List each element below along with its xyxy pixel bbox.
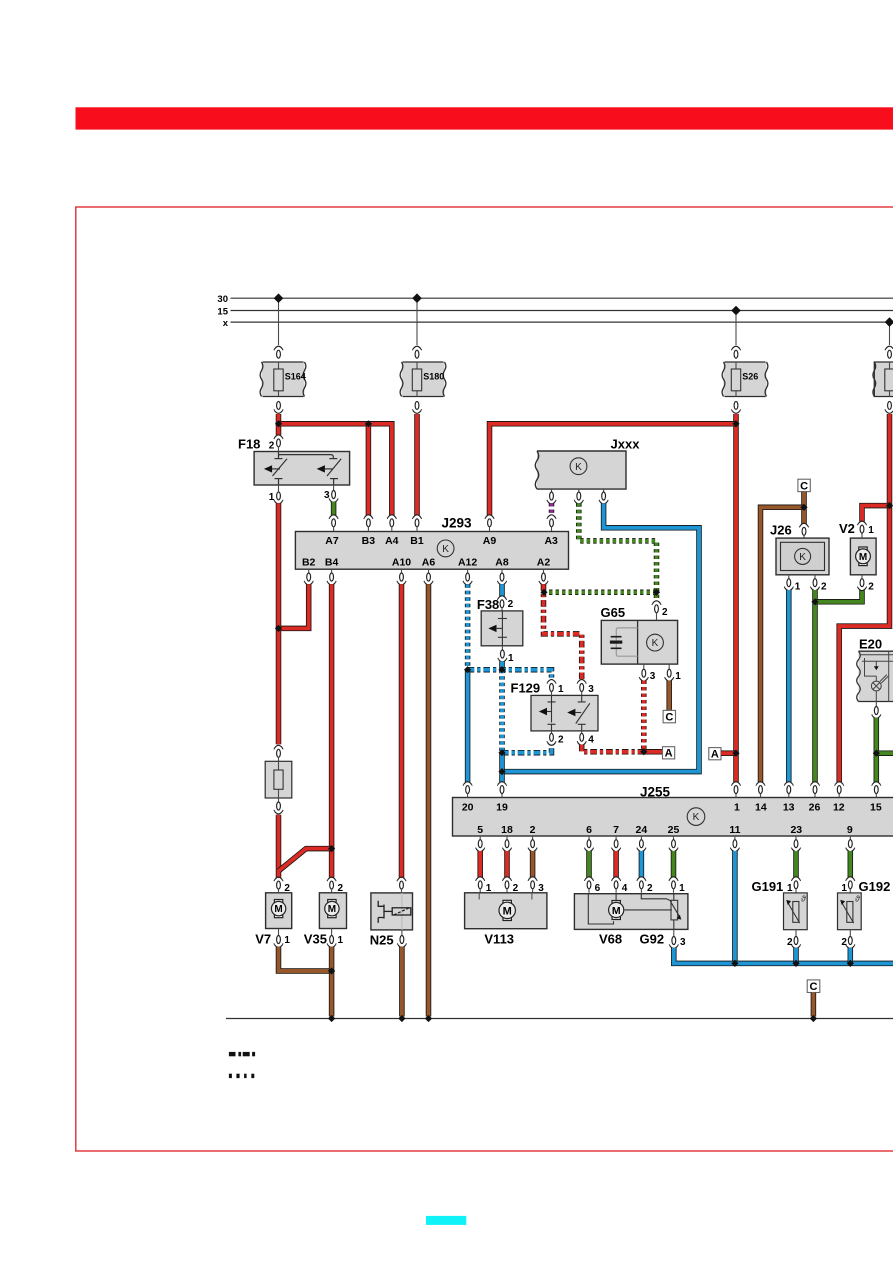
junction F38/dashdot <box>498 666 505 673</box>
relay J26 <box>776 538 829 575</box>
svg-text:J293: J293 <box>442 516 473 531</box>
switch illumination E20 <box>859 651 893 701</box>
connector above A4 <box>387 515 396 527</box>
svg-text:6: 6 <box>586 824 592 836</box>
junction pin1 line/plug A <box>732 750 739 757</box>
legend dotted sample <box>229 1074 254 1078</box>
connector above B3 <box>364 515 373 527</box>
wire red J255 pin5 to V113 pin 1 <box>479 836 481 840</box>
wire red branch to A9 <box>490 424 737 516</box>
svg-text:ϑ: ϑ <box>801 894 806 904</box>
svg-text:A8: A8 <box>495 557 509 569</box>
fuse S26 <box>724 362 767 397</box>
svg-text:1: 1 <box>841 883 847 894</box>
wire red dashdot A2 to F129 pin 3 <box>543 569 545 573</box>
wire 15 to S26 <box>735 311 737 346</box>
svg-text:24: 24 <box>636 824 648 836</box>
wire red S164 to F18 pin 2 <box>276 414 282 435</box>
wire 30 to S164 <box>278 298 280 345</box>
svg-text:V7: V7 <box>255 932 271 947</box>
svg-text:M: M <box>503 905 512 917</box>
svg-text:A7: A7 <box>325 535 339 547</box>
junction sensor bus / pin11 <box>731 960 738 967</box>
E20 pin connector <box>875 702 877 707</box>
fuse F38 <box>481 611 523 646</box>
junction B2/F18 line <box>275 625 282 632</box>
svg-text:K: K <box>693 812 700 823</box>
junction B3 branch <box>365 420 372 427</box>
wire red diagonal branch to V7 <box>279 849 332 871</box>
wire blue node to J255 pin 19 <box>499 753 505 783</box>
svg-text:2: 2 <box>647 883 653 894</box>
svg-text:G65: G65 <box>601 605 626 620</box>
svg-text:A9: A9 <box>483 535 497 547</box>
connector above J255 x=467.6 <box>463 782 472 794</box>
wire brown A6 to ground <box>428 569 430 573</box>
svg-text:4: 4 <box>622 883 628 894</box>
thermo switch F18 <box>254 452 350 486</box>
wire brown V35 pin1 to ground <box>329 947 335 1017</box>
svg-text:Jxxx: Jxxx <box>611 437 641 452</box>
svg-text:1: 1 <box>868 525 874 536</box>
wire green branch to right edge <box>876 750 893 756</box>
svg-text:A12: A12 <box>458 557 477 569</box>
pin 1 of F129 <box>547 680 556 692</box>
svg-text:x: x <box>223 318 229 329</box>
svg-text:2: 2 <box>841 937 847 948</box>
junction green/A2 <box>540 589 547 596</box>
wire blue G92 pin3 to sensor bus <box>674 948 893 964</box>
fuse S164 <box>262 362 305 397</box>
wire x to right fuse <box>889 322 891 345</box>
wire red A10 to N25 <box>401 569 403 573</box>
svg-text:K: K <box>442 544 449 555</box>
svg-text:15: 15 <box>217 307 228 318</box>
svg-text:2: 2 <box>508 599 514 610</box>
svg-text:3: 3 <box>650 671 656 682</box>
plug A (right) <box>709 748 721 760</box>
junction B4/V7 branch <box>328 845 335 852</box>
wire red node to plug A <box>644 749 663 755</box>
svg-text:3: 3 <box>680 937 686 948</box>
svg-text:M: M <box>274 904 282 915</box>
bus terminal x <box>231 321 893 323</box>
svg-text:30: 30 <box>217 294 228 305</box>
svg-text:A4: A4 <box>385 535 399 547</box>
N25 bottom pin <box>401 930 403 936</box>
Jxxx pin to A3 (purple) <box>551 489 553 492</box>
svg-text:2: 2 <box>662 607 668 618</box>
junction C/ground <box>810 1015 817 1022</box>
connector above J255 x=736 <box>731 782 740 794</box>
svg-text:C: C <box>810 981 818 993</box>
svg-text:S164: S164 <box>285 372 306 382</box>
connector below S180 <box>412 401 421 413</box>
wire red resistor to V7 pin 2 <box>276 815 282 878</box>
wire 30 to S180 <box>416 298 418 345</box>
svg-text:V2: V2 <box>839 521 855 536</box>
svg-text:19: 19 <box>496 801 508 813</box>
svg-text:E20: E20 <box>859 636 882 651</box>
pin 4 of F129 <box>581 731 583 733</box>
fuse S-right (clipped) <box>874 362 893 397</box>
Jxxx pin blue output <box>603 489 605 492</box>
pin 1 of J26 <box>788 575 790 579</box>
svg-text:1: 1 <box>338 935 344 946</box>
svg-text:S180: S180 <box>423 372 444 382</box>
wire blue A8 to F38 pin 2 <box>501 569 503 573</box>
junction sensor bus / G191 <box>792 960 799 967</box>
wire red dotted G65 pin3 to node <box>641 681 647 752</box>
svg-text:N25: N25 <box>370 933 394 948</box>
wire red to J293 pins B3/A4 <box>279 424 392 516</box>
connector above J255 x=760.5 <box>756 782 765 794</box>
pin 2 of V35 <box>327 877 336 889</box>
wire blue G192 pin2 to sensor bus <box>848 948 854 964</box>
svg-text:1: 1 <box>269 492 275 503</box>
bus terminal 30 <box>231 297 893 299</box>
svg-text:V35: V35 <box>304 932 327 947</box>
wire brown V7 pin1 to V35 node <box>279 947 332 971</box>
svg-text:7: 7 <box>613 824 619 836</box>
wire green J255 pin9 to G192 pin 1 <box>849 836 851 840</box>
svg-text:1: 1 <box>787 883 793 894</box>
wire brown plug C to ground <box>811 993 817 1017</box>
connector above J255 x=502 <box>497 782 506 794</box>
wire red F18 pin1 down to inline resistor <box>276 503 282 744</box>
wire green J26 pin2 to J255 pin 26 <box>812 590 818 782</box>
wire red branch to V2 pin 1 <box>862 506 890 522</box>
junction blue Jxxx line <box>498 768 505 775</box>
wire green V2 pin2 branch <box>815 590 862 602</box>
temperature sensor G191 <box>784 893 808 930</box>
junction brown V7/V35 node <box>328 967 335 974</box>
pin 1 of F38 <box>501 646 503 650</box>
svg-text:13: 13 <box>783 801 795 813</box>
svg-text:1: 1 <box>679 883 685 894</box>
svg-text:J255: J255 <box>640 784 671 799</box>
wire red J255 pin7 to V68 pin 4 <box>615 836 617 840</box>
connector above J255 x=876.3 <box>872 782 881 794</box>
wire red B4 to V35 pin 2 <box>331 569 333 573</box>
pin 2 of V7 <box>274 877 283 889</box>
wire brown J255 pin2 to V113 pin 3 <box>532 836 534 840</box>
wire red B2 to F18 line <box>308 569 310 573</box>
svg-text:G192: G192 <box>859 879 891 894</box>
svg-text:18: 18 <box>501 824 513 836</box>
pin 1 of V7 <box>278 929 280 936</box>
control unit J255 <box>453 798 893 837</box>
wire blue dotted A12 down <box>467 569 469 573</box>
connector above J255 x=788.8 <box>784 782 793 794</box>
junction sensor bus / G192 <box>847 960 854 967</box>
relay N25 <box>371 893 413 930</box>
junction F18 pin2 node <box>275 420 282 427</box>
junction V2 branch <box>886 502 893 509</box>
ground rail <box>226 1018 893 1020</box>
svg-text:B1: B1 <box>410 535 424 547</box>
svg-text:M: M <box>328 904 336 915</box>
wire green dotted Jxxx to G65 pin 2 <box>579 503 657 601</box>
wire green J255 pin6 to V68 pin 6 <box>588 836 590 840</box>
svg-text:2: 2 <box>868 582 874 593</box>
motor V35 <box>319 893 346 929</box>
plug C (bottom) <box>807 980 820 993</box>
svg-text:A: A <box>665 748 673 760</box>
svg-text:14: 14 <box>755 801 767 813</box>
wire blue J255 pin11 to sensor bus <box>734 836 736 840</box>
svg-text:F18: F18 <box>238 436 260 451</box>
svg-text:S26: S26 <box>742 372 758 382</box>
junction green/G65 <box>653 589 660 596</box>
pin 1 of G65 <box>668 664 670 669</box>
svg-text:B3: B3 <box>362 535 376 547</box>
svg-text:2: 2 <box>787 937 793 948</box>
wire blue dashdot node to F129 pin 1 <box>468 670 552 681</box>
connector below right fuse <box>885 401 893 413</box>
plug A (left) <box>663 747 675 759</box>
fuse S180 <box>402 362 445 397</box>
svg-text:1: 1 <box>284 935 290 946</box>
pin 2 of V2 <box>861 575 863 579</box>
svg-text:1: 1 <box>558 684 564 695</box>
pin 3 of G65 <box>643 664 645 669</box>
pressure switch F129 <box>531 695 598 731</box>
connector above J255 x=815 <box>810 782 819 794</box>
svg-text:1: 1 <box>508 653 514 664</box>
svg-text:M: M <box>612 905 621 917</box>
svg-text:2: 2 <box>284 883 290 894</box>
legend dash-dot sample <box>229 1052 255 1056</box>
pin 2 of G191 <box>795 930 797 937</box>
svg-text:3: 3 <box>588 684 594 695</box>
wire green E20 to J255 pin 15 <box>874 718 880 783</box>
svg-text:12: 12 <box>833 801 845 813</box>
control unit J293 <box>295 532 568 570</box>
svg-text:26: 26 <box>809 801 821 813</box>
plug C (G65) <box>663 710 675 722</box>
wire brown G65 pin1 to plug C <box>666 681 672 711</box>
svg-text:B4: B4 <box>325 557 339 569</box>
inline resistor on V7 feed <box>265 761 292 798</box>
connector above F38 <box>497 596 506 608</box>
motor V7 <box>266 893 292 929</box>
svg-text:2: 2 <box>530 824 536 836</box>
wire blue J26 pin1 to J255 pin 13 <box>786 590 792 782</box>
wire brown branch to J255 pin 14 <box>761 507 805 782</box>
wire blue solid node to J255 pin 20 <box>465 670 471 783</box>
svg-text:A10: A10 <box>392 557 411 569</box>
svg-text:C: C <box>665 712 673 724</box>
node junction 30/S164 <box>274 293 284 303</box>
wire green J255 pin23 to G191 pin 1 <box>795 836 797 840</box>
wire blue dotted F38 node down <box>499 670 505 753</box>
wire blue F38 pin1 to node <box>499 661 505 669</box>
svg-text:F38: F38 <box>477 597 499 612</box>
junction dashdot/pin19 wire <box>498 749 505 756</box>
svg-text:9: 9 <box>847 824 853 836</box>
connector above J255 x=839.2 <box>835 782 844 794</box>
pin 2 of G65 <box>652 601 661 613</box>
pressure sender G65 <box>601 620 677 664</box>
wire green F18 pin3 to J293 A7 <box>331 502 337 516</box>
svg-text:1: 1 <box>675 671 681 682</box>
wire green dotted branch to A2 node <box>544 590 657 596</box>
connector below inline resistor <box>278 798 280 802</box>
pin 2 of J26 <box>814 575 816 579</box>
svg-text:B2: B2 <box>302 557 316 569</box>
connector below S164 <box>274 401 283 413</box>
wire red S26 down to J255 pin 1 <box>733 414 739 782</box>
pin 1 of V2 <box>857 521 866 533</box>
node junction 30/S180 <box>412 293 422 303</box>
wire red S180 to B1 <box>414 414 420 516</box>
svg-text:25: 25 <box>668 824 680 836</box>
node junction 15/S26 <box>731 306 741 316</box>
junction green E20 branch <box>873 750 880 757</box>
wire blue J255 pin24 to G92 pin 2 <box>640 836 642 840</box>
svg-text:K: K <box>575 462 582 473</box>
junction S26/A9 branch <box>732 420 739 427</box>
junction A6/ground <box>425 1015 432 1022</box>
bus terminal 15 <box>231 310 893 312</box>
pin 3 of G92 <box>673 929 675 936</box>
temperature sensor G192 <box>838 893 862 930</box>
connector above B1 <box>412 515 421 527</box>
svg-text:2: 2 <box>558 735 564 746</box>
svg-text:11: 11 <box>729 824 740 836</box>
wire blue dashdot to F129 pin 2 <box>502 745 552 753</box>
wire red plug A to J255 pin1 line <box>721 750 736 756</box>
svg-text:1: 1 <box>795 582 801 593</box>
svg-text:4: 4 <box>588 735 594 746</box>
node junction x/S-right <box>885 317 893 327</box>
svg-text:ϑ: ϑ <box>855 894 860 904</box>
svg-text:G92: G92 <box>640 932 665 947</box>
svg-text:M: M <box>859 552 867 563</box>
junction green V2 node <box>811 598 818 605</box>
svg-text:K: K <box>799 552 806 563</box>
wire red J255 pin18 to V113 pin 2 <box>506 836 508 840</box>
wire red dashdot F129 pin4 to node <box>582 745 644 752</box>
svg-text:A2: A2 <box>537 557 551 569</box>
wire blue G191 pin2 to sensor bus <box>793 948 799 964</box>
N25 top pin <box>397 877 406 889</box>
svg-text:6: 6 <box>595 883 601 894</box>
svg-text:F129: F129 <box>511 681 541 696</box>
svg-text:G191: G191 <box>751 879 783 894</box>
connector below S26 <box>731 401 740 413</box>
svg-text:C: C <box>800 480 808 492</box>
control unit Jxxx <box>537 451 626 489</box>
svg-text:2: 2 <box>821 582 827 593</box>
junction N25/ground <box>398 1015 405 1022</box>
junction brown C node <box>800 504 807 511</box>
svg-text:V113: V113 <box>484 932 514 947</box>
svg-text:1: 1 <box>734 801 740 813</box>
connector above J26 <box>799 523 808 535</box>
pin 2 of F129 <box>551 731 553 733</box>
junction V35/ground <box>328 1015 335 1022</box>
wire red right fuse down to J255 pin 12 <box>839 414 889 782</box>
svg-text:5: 5 <box>477 824 483 836</box>
blower motor V68 / potentiometer G92 <box>574 894 688 930</box>
wire brown N25 to ground <box>399 947 405 1017</box>
Jxxx pin to G65 (green dotted) <box>578 489 580 492</box>
wire red branch to B3 <box>366 424 372 516</box>
svg-text:A: A <box>711 749 719 761</box>
svg-text:A6: A6 <box>422 557 436 569</box>
svg-text:15: 15 <box>870 801 882 813</box>
junction G65 pin3 node <box>640 748 647 755</box>
svg-text:J26: J26 <box>770 523 792 538</box>
connector above A9 <box>485 515 494 527</box>
svg-text:K: K <box>652 638 659 649</box>
motor V113 <box>465 893 547 929</box>
svg-text:2: 2 <box>269 441 275 452</box>
svg-text:23: 23 <box>790 824 802 836</box>
svg-text:A3: A3 <box>544 535 558 547</box>
svg-text:V68: V68 <box>599 932 622 947</box>
junction A12/dashdot <box>464 666 471 673</box>
pin 2 of G192 <box>849 930 851 937</box>
wire blue Jxxx to J255 pin 19 node <box>502 503 699 771</box>
plug C (top right) <box>798 479 810 491</box>
svg-text:20: 20 <box>462 801 474 813</box>
pin 1 of V35 <box>331 929 333 936</box>
wire green J255 pin25 to G92 pin 1 <box>673 836 675 840</box>
svg-text:2: 2 <box>338 883 344 894</box>
wire brown plug C down <box>801 492 807 524</box>
connector above inline resistor <box>274 745 283 757</box>
motor V2 <box>850 538 876 575</box>
